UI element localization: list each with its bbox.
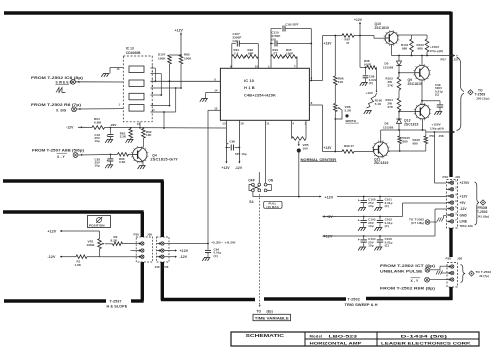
svg-text:ON: ON <box>268 179 274 183</box>
svg-text:CD4066B: CD4066B <box>126 51 141 55</box>
svg-text:100P: 100P <box>286 52 293 56</box>
svg-text:TRIG SWEEP & H: TRIG SWEEP & H <box>345 303 379 307</box>
svg-text:D-1434 (5/6): D-1434 (5/6) <box>401 333 449 338</box>
svg-text:J50 (1/p): J50 (1/p) <box>476 97 489 101</box>
svg-text:S W E E P: S W E E P <box>56 81 73 85</box>
svg-text:FROM T-2502 R6 (7p): FROM T-2502 R6 (7p) <box>31 103 81 107</box>
svg-text:+: + <box>106 133 108 137</box>
svg-text:IC 10: IC 10 <box>244 78 255 83</box>
svg-text:(CT 1/8p): (CT 1/8p) <box>411 221 424 225</box>
svg-text:J9 (7p): J9 (7p) <box>479 274 489 278</box>
svg-text:LEADER ELECTRONICS CORP.: LEADER ELECTRONICS CORP. <box>381 340 471 345</box>
svg-text:10μ: 10μ <box>368 204 373 208</box>
svg-text:HORIZONTAL AMP: HORIZONTAL AMP <box>310 340 363 345</box>
svg-text:+: + <box>358 199 360 203</box>
svg-text:TO: TO <box>257 309 262 313</box>
svg-text:14: 14 <box>137 123 140 126</box>
svg-text:X. SIG: X. SIG <box>56 108 67 112</box>
svg-text:-12V: -12V <box>235 166 243 170</box>
svg-text:LBO-523: LBO-523 <box>329 333 359 338</box>
svg-text:+12V: +12V <box>180 249 189 253</box>
svg-text:100: 100 <box>303 147 309 151</box>
svg-text:OFF: OFF <box>248 179 255 183</box>
svg-text:1/Vp-p(H): 1/Vp-p(H) <box>430 49 444 53</box>
svg-text:+270V: +270V <box>460 181 471 185</box>
svg-text:C4B+2354-HZ9K: C4B+2354-HZ9K <box>244 94 276 98</box>
svg-text:-12V: -12V <box>180 255 188 259</box>
svg-text:TIME VARIABLE: TIME VARIABLE <box>255 317 290 321</box>
svg-text:-12V: -12V <box>48 255 56 259</box>
svg-text:+12V: +12V <box>354 18 363 22</box>
svg-text:10μ: 10μ <box>368 244 373 248</box>
svg-text:-28V: -28V <box>110 123 117 127</box>
svg-text:+10V: +10V <box>366 91 374 95</box>
svg-text:1/Vp-p(H): 1/Vp-p(H) <box>430 127 444 131</box>
svg-text:16: 16 <box>240 122 244 126</box>
svg-text:+: + <box>358 219 360 223</box>
svg-text:(H): (H) <box>272 37 276 41</box>
svg-text:P49: P49 <box>443 175 449 179</box>
svg-text:-12V: -12V <box>460 207 468 211</box>
svg-text:2.2: 2.2 <box>234 52 239 56</box>
svg-text:-0.25~ +0.5V: -0.25~ +0.5V <box>211 240 237 244</box>
svg-text:R99: R99 <box>344 144 350 148</box>
svg-text:FROM T-2502 R6R (8p): FROM T-2502 R6R (8p) <box>380 286 436 290</box>
svg-text:P36: P36 <box>134 233 140 237</box>
svg-text:+12V: +12V <box>460 194 469 198</box>
svg-text:7: 7 <box>294 64 296 68</box>
svg-text:P36: P36 <box>163 265 169 269</box>
svg-text:×10 MAG: ×10 MAG <box>266 205 280 209</box>
svg-text:+: + <box>358 238 360 242</box>
svg-text:(C): (C) <box>385 224 389 228</box>
svg-text:10K: 10K <box>146 133 152 137</box>
svg-text:J41 (8p): J41 (8p) <box>477 214 489 218</box>
svg-text:H & SLOPE: H & SLOPE <box>107 305 128 309</box>
svg-text:+5V: +5V <box>460 201 467 205</box>
svg-text:+13V: +13V <box>324 146 333 150</box>
svg-text:J38: J38 <box>457 257 462 261</box>
svg-text:3.3K: 3.3K <box>120 135 127 139</box>
svg-text:680: 680 <box>413 142 419 146</box>
svg-text:2SC1819: 2SC1819 <box>408 82 423 86</box>
svg-text:6.8M: 6.8M <box>94 121 101 125</box>
svg-text:J58: J58 <box>439 134 444 138</box>
svg-text:8: 8 <box>311 101 313 105</box>
svg-text:J36: J36 <box>155 265 160 269</box>
svg-text:14: 14 <box>214 89 218 93</box>
svg-text:-12V: -12V <box>66 125 74 129</box>
svg-text:100: 100 <box>338 80 344 84</box>
svg-text:Model: Model <box>310 333 323 338</box>
svg-text:SCHEMATIC: SCHEMATIC <box>246 333 285 338</box>
svg-text:S4: S4 <box>249 200 253 204</box>
svg-text:910P: 910P <box>364 62 371 66</box>
svg-text:+12V: +12V <box>48 230 57 234</box>
svg-text:1: 1 <box>268 64 270 68</box>
svg-text:13: 13 <box>117 68 120 71</box>
svg-text:+13V: +13V <box>324 42 333 46</box>
svg-text:+: + <box>106 158 108 162</box>
svg-text:IC 13: IC 13 <box>126 47 134 51</box>
svg-text:680: 680 <box>418 46 424 50</box>
svg-text:P57: P57 <box>441 58 447 62</box>
svg-text:ET: ET <box>274 52 278 56</box>
svg-text:2SC1819: 2SC1819 <box>374 161 389 165</box>
svg-text:1.8K: 1.8K <box>75 263 82 267</box>
svg-text:68P: 68P <box>248 52 253 56</box>
svg-text:5.1K: 5.1K <box>375 102 382 106</box>
svg-text:C96: C96 <box>230 139 236 143</box>
svg-text:X - Y: X - Y <box>411 279 419 283</box>
svg-text:(C): (C) <box>435 93 439 97</box>
svg-text:(C): (C) <box>369 81 373 85</box>
svg-text:TO T-2503: TO T-2503 <box>476 270 492 274</box>
svg-text:10μ: 10μ <box>95 164 100 168</box>
svg-text:+12V: +12V <box>175 29 184 33</box>
svg-text:X - Y: X - Y <box>57 155 65 159</box>
svg-text:-12V: -12V <box>325 234 333 238</box>
svg-text:680: 680 <box>403 140 409 144</box>
svg-text:C109 33PF: C109 33PF <box>286 22 299 26</box>
svg-text:(H): (H) <box>233 39 237 43</box>
svg-text:50V 10μ: 50V 10μ <box>235 152 247 156</box>
svg-text:47: 47 <box>351 144 355 148</box>
svg-text:10μ: 10μ <box>95 139 100 143</box>
svg-text:T-2502: T-2502 <box>348 298 360 302</box>
svg-text:J49: J49 <box>455 175 460 179</box>
svg-text:+12V: +12V <box>325 195 334 199</box>
svg-text:100K: 100K <box>158 57 166 61</box>
svg-text:(8p): (8p) <box>267 309 273 313</box>
svg-text:100K: 100K <box>184 57 192 61</box>
svg-text:27K: 27K <box>388 84 394 88</box>
svg-text:13: 13 <box>222 122 226 126</box>
svg-text:GND: GND <box>460 213 468 217</box>
svg-text:47: 47 <box>346 41 350 45</box>
svg-text:(C): (C) <box>385 244 389 248</box>
svg-text:5: 5 <box>214 77 216 81</box>
svg-text:FROM T-2502 IC8 (8p): FROM T-2502 IC8 (8p) <box>31 76 83 80</box>
svg-text:(C): (C) <box>214 254 218 258</box>
svg-text:2SC1815-Gr/Y: 2SC1815-Gr/Y <box>150 157 178 161</box>
svg-text:J36: J36 <box>147 233 152 237</box>
svg-text:2SC1819: 2SC1819 <box>375 26 390 30</box>
svg-text:680: 680 <box>402 46 408 50</box>
svg-text:+: + <box>227 142 229 146</box>
svg-text:UNBLANK PULSE: UNBLANK PULSE <box>380 269 423 273</box>
svg-text:WIDTH: WIDTH <box>346 119 357 123</box>
svg-text:2.2K: 2.2K <box>345 108 352 112</box>
svg-text:4: 4 <box>292 122 294 126</box>
svg-text:+5V: +5V <box>326 215 333 219</box>
svg-text:(C): (C) <box>385 204 389 208</box>
svg-text:H 1 B: H 1 B <box>244 85 255 90</box>
svg-text:1S1588: 1S1588 <box>383 125 394 129</box>
svg-text:T-2537: T-2537 <box>110 300 122 304</box>
svg-text:P38: P38 <box>446 257 452 261</box>
svg-text:8.2K: 8.2K <box>111 238 118 242</box>
svg-text:FROM T-2507 A6B (5/6p): FROM T-2507 A6B (5/6p) <box>32 149 84 153</box>
svg-text:10μ: 10μ <box>368 224 373 228</box>
svg-text:TRIG.SIG: TRIG.SIG <box>460 224 474 228</box>
svg-text:27K: 27K <box>388 105 394 109</box>
svg-text:1S1588: 1S1588 <box>383 66 394 70</box>
svg-text:+12V: +12V <box>222 166 231 170</box>
svg-text:3.3K: 3.3K <box>119 160 126 164</box>
svg-text:POSITION: POSITION <box>89 223 105 227</box>
svg-text:10KB: 10KB <box>87 243 96 247</box>
svg-text:11: 11 <box>266 122 270 126</box>
svg-text:2SC1819: 2SC1819 <box>404 123 419 127</box>
